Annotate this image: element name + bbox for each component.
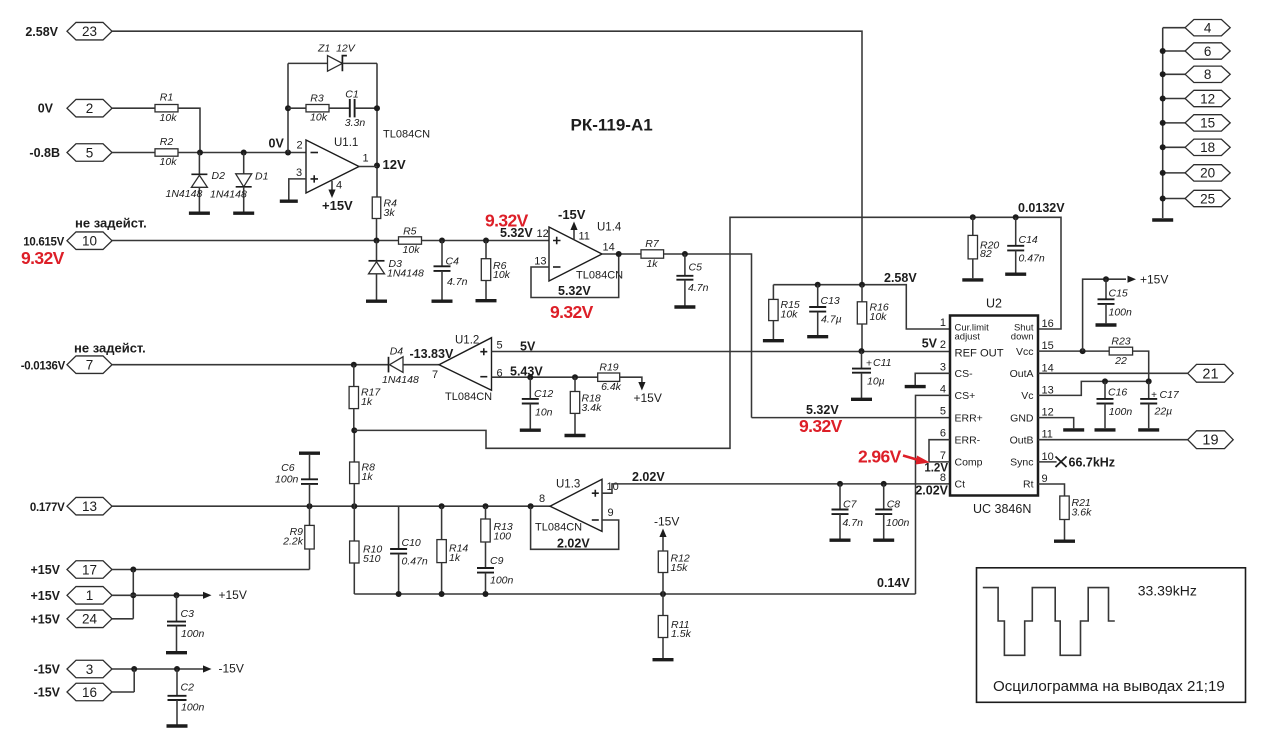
svg-text:+15V: +15V: [30, 563, 60, 577]
wire from pin 23 to R16 node: [112, 31, 862, 285]
svg-text:10n: 10n: [535, 407, 553, 419]
svg-text:R1: R1: [160, 92, 173, 104]
resistor R2: [155, 149, 178, 156]
ground for C12: [520, 429, 541, 432]
zener diode Z1: [288, 62, 328, 64]
svg-text:D2: D2: [212, 170, 226, 182]
svg-text:9: 9: [608, 507, 614, 519]
wire -15V bus vertical: [112, 669, 134, 692]
svg-text:C3: C3: [181, 608, 195, 620]
svg-text:10µ: 10µ: [867, 375, 885, 387]
diode D1: [243, 153, 245, 174]
wire pin2 to R1: [112, 107, 155, 109]
connector pin 19 output: [1188, 431, 1234, 449]
wire pin3 -15V line with arrow: [112, 668, 203, 670]
wire U1.2 pin6 line: [492, 376, 598, 378]
svg-text:1.5k: 1.5k: [671, 628, 692, 640]
connector pin 2 (0V input): [67, 99, 112, 117]
svg-text:1: 1: [86, 588, 94, 603]
U2 pin 15 Vcc wire to R23 and +15V: [1038, 350, 1109, 352]
svg-text:19: 19: [1202, 433, 1218, 449]
svg-text:10: 10: [1042, 451, 1054, 463]
svg-text:23: 23: [82, 24, 97, 39]
svg-text:0.14V: 0.14V: [877, 576, 910, 590]
svg-text:10k: 10k: [310, 112, 328, 124]
connector pin 23 (2.58V input): [67, 22, 112, 40]
svg-text:66.7kHz: 66.7kHz: [1069, 455, 1116, 469]
ground for C13: [807, 335, 828, 338]
svg-text:1N4148: 1N4148: [210, 189, 247, 201]
svg-text:15k: 15k: [671, 562, 689, 574]
svg-text:-15V: -15V: [34, 663, 61, 677]
ground for R18: [565, 434, 586, 437]
connector pin 18: [1163, 146, 1185, 148]
capacitor C10: [398, 506, 400, 549]
svg-text:9.32V: 9.32V: [550, 302, 594, 322]
svg-text:10k: 10k: [493, 269, 511, 281]
svg-text:10k: 10k: [160, 112, 178, 124]
svg-text:3k: 3k: [384, 207, 396, 219]
diode D3: [376, 241, 378, 261]
svg-text:C13: C13: [821, 295, 840, 307]
svg-text:UC 3846N: UC 3846N: [973, 502, 1031, 516]
wire right connector column vertical: [1162, 28, 1164, 218]
svg-text:0V: 0V: [38, 102, 54, 116]
svg-text:1N4148: 1N4148: [382, 374, 419, 386]
resistor R11: [662, 594, 664, 616]
resistor R18: [574, 377, 576, 391]
svg-text:6: 6: [940, 428, 946, 440]
connector pin 25: [1163, 198, 1185, 200]
svg-text:3.3n: 3.3n: [345, 117, 366, 129]
svg-text:8: 8: [539, 493, 545, 505]
svg-text:1: 1: [363, 153, 369, 165]
connector pin 15: [1163, 122, 1185, 124]
resistor R9: [309, 506, 311, 525]
diode D2: [198, 153, 200, 175]
op-amp U1.1: [306, 140, 359, 193]
U2 pin 4 CS+ wire down to 0.14V rail: [916, 395, 951, 594]
U1.1 pin 3 ground: [289, 179, 306, 200]
connector pin 6: [1163, 50, 1185, 52]
ground for R6: [476, 299, 497, 302]
connector pin 20: [1163, 172, 1185, 174]
svg-text:1N4148: 1N4148: [166, 188, 203, 200]
wire U1.4 output to R7: [602, 253, 641, 255]
svg-text:10k: 10k: [160, 156, 178, 168]
svg-text:12V: 12V: [383, 157, 406, 172]
svg-text:1N4148: 1N4148: [387, 268, 424, 280]
svg-text:C1: C1: [345, 88, 358, 100]
capacitor C15: [1105, 279, 1107, 299]
connector pin 21 output: [1188, 364, 1234, 382]
svg-text:21: 21: [1202, 366, 1218, 382]
svg-text:5.32V: 5.32V: [500, 226, 533, 240]
capacitor C6 with top ground: [299, 452, 320, 455]
svg-text:25: 25: [1200, 191, 1215, 206]
capacitor C5: [684, 254, 686, 276]
connector pin 3 (-15V): [67, 660, 112, 678]
svg-text:-15V: -15V: [219, 661, 244, 675]
svg-text:6: 6: [1204, 44, 1212, 59]
capacitor C14: [1015, 217, 1017, 246]
svg-text:4.7n: 4.7n: [688, 282, 709, 294]
ground for C17: [1138, 428, 1159, 431]
capacitor C1: [350, 99, 355, 117]
oscillogram box: [977, 568, 1246, 703]
svg-text:U2: U2: [986, 297, 1002, 311]
svg-text:4: 4: [336, 180, 342, 192]
svg-text:5V: 5V: [922, 337, 938, 351]
capacitor C4: [441, 241, 443, 267]
svg-text:0V: 0V: [269, 136, 285, 150]
svg-text:CS+: CS+: [955, 390, 976, 402]
resistor R6: [485, 241, 487, 259]
svg-text:C5: C5: [689, 261, 703, 273]
U2 pin 10 Sync with X mark: [1038, 461, 1057, 463]
svg-text:C10: C10: [402, 537, 421, 549]
svg-text:Sync: Sync: [1010, 457, 1033, 469]
capacitor C17 (polarized): [1148, 381, 1150, 399]
svg-text:Rt: Rt: [1023, 479, 1034, 491]
svg-text:9.32V: 9.32V: [21, 248, 65, 268]
svg-text:-15V: -15V: [654, 515, 679, 529]
svg-text:7: 7: [86, 358, 94, 373]
U2 pin 11 OutB wire to pin 19: [1038, 439, 1188, 441]
svg-text:C8: C8: [887, 499, 901, 511]
svg-text:10.615V: 10.615V: [23, 237, 64, 249]
resistor R17: [353, 365, 355, 387]
svg-text:100: 100: [494, 531, 512, 543]
ground for R15: [763, 339, 784, 342]
svg-text:+15V: +15V: [30, 612, 60, 626]
svg-text:U1.4: U1.4: [597, 222, 622, 234]
svg-text:REF OUT: REF OUT: [955, 348, 1004, 360]
svg-text:C12: C12: [534, 388, 553, 400]
svg-text:4.7n: 4.7n: [447, 276, 468, 288]
svg-text:2.58V: 2.58V: [884, 271, 917, 285]
svg-text:1.2V: 1.2V: [924, 463, 948, 475]
svg-text:24: 24: [82, 612, 98, 627]
svg-text:TL084CN: TL084CN: [576, 270, 623, 282]
svg-text:22µ: 22µ: [1154, 406, 1173, 418]
svg-text:РК-119-А1: РК-119-А1: [571, 116, 653, 135]
wire pin5 to R2: [112, 152, 155, 154]
ground for C14: [1005, 273, 1026, 276]
svg-text:1k: 1k: [646, 258, 658, 270]
svg-text:8: 8: [1204, 67, 1212, 82]
svg-text:CS-: CS-: [955, 368, 974, 380]
ground for C11: [851, 398, 872, 401]
svg-text:+: +: [866, 357, 872, 369]
svg-text:100n: 100n: [181, 628, 205, 640]
svg-text:10k: 10k: [870, 311, 888, 323]
svg-text:2: 2: [86, 101, 94, 116]
connector pin 7 (-0.0136V): [67, 356, 112, 374]
svg-text:4.7n: 4.7n: [843, 517, 864, 529]
connector pin 13 (0.177V): [67, 497, 112, 515]
svg-text:1k: 1k: [449, 552, 461, 564]
svg-text:2.02V: 2.02V: [632, 470, 665, 484]
svg-text:Vcc: Vcc: [1016, 346, 1034, 358]
ground for right connector column: [1152, 218, 1173, 221]
resistor R23: [1109, 347, 1132, 355]
U2 pin 6 ERR- to Comp wire: [929, 440, 950, 462]
svg-text:OutA: OutA: [1010, 368, 1034, 380]
svg-text:5.32V: 5.32V: [806, 403, 839, 417]
resistor R7: [641, 250, 664, 258]
svg-text:100n: 100n: [275, 473, 299, 485]
resistor R12 with -15V arrow: [662, 573, 664, 595]
resistor R3: [306, 105, 329, 112]
svg-text:0.177V: 0.177V: [30, 502, 65, 514]
svg-text:11: 11: [579, 231, 590, 243]
svg-text:16: 16: [82, 685, 97, 700]
wire R23 to OutA node: [1133, 351, 1149, 381]
svg-text:1k: 1k: [362, 471, 374, 483]
wire 0.0132V net from R17/R8 node to U2 shutdown: [354, 217, 1061, 448]
ground for C5: [674, 305, 695, 308]
wire U1.2 pin5 5V reference line to U2 REF OUT: [492, 351, 951, 353]
svg-text:C4: C4: [446, 255, 460, 267]
wire pin1 +15V line with arrow: [112, 594, 203, 596]
capacitor C13: [817, 285, 819, 307]
svg-text:5: 5: [497, 340, 503, 352]
svg-text:C2: C2: [181, 681, 195, 693]
ground for C3: [166, 651, 187, 654]
svg-text:17: 17: [82, 562, 97, 577]
U1.3 pin 10 wire to 2.02V line: [602, 484, 950, 493]
capacitor C7: [839, 484, 841, 510]
svg-text:7: 7: [432, 369, 438, 381]
resistor R10: [353, 506, 355, 541]
svg-text:14: 14: [603, 242, 615, 254]
resistor R20: [972, 217, 974, 235]
svg-text:16: 16: [1042, 318, 1054, 330]
wire ERR+ line to U2 pin 5: [752, 417, 951, 419]
capacitor C9: [477, 568, 494, 573]
svg-text:C17: C17: [1160, 389, 1180, 401]
svg-text:2: 2: [940, 339, 946, 351]
U2 pin 14 OutA wire to pin 21: [1038, 372, 1188, 374]
svg-text:2.02V: 2.02V: [915, 484, 948, 498]
svg-text:100n: 100n: [181, 702, 205, 714]
svg-text:18: 18: [1200, 140, 1215, 155]
svg-text:100n: 100n: [1109, 406, 1133, 418]
ground for C16: [1095, 428, 1116, 431]
svg-text:-15V: -15V: [558, 207, 586, 222]
svg-text:не задейст.: не задейст.: [74, 341, 146, 356]
svg-text:5.43V: 5.43V: [510, 365, 543, 379]
svg-text:ERR+: ERR+: [955, 412, 983, 424]
svg-text:C7: C7: [843, 499, 858, 511]
U2 pin 3 CS- ground: [915, 373, 950, 385]
svg-text:3: 3: [296, 167, 302, 179]
connector pin 8: [1163, 73, 1185, 75]
resistor R1: [155, 105, 178, 112]
svg-text:9.32V: 9.32V: [799, 416, 843, 436]
connector pin 5 (-0.8V input): [67, 144, 112, 162]
wire R3 branch: [288, 107, 306, 109]
IC U2 UC3846N body: [950, 316, 1038, 496]
svg-text:3: 3: [940, 361, 946, 373]
svg-text:+15V: +15V: [322, 198, 353, 213]
resistor R19: [598, 373, 620, 381]
svg-text:20: 20: [1200, 166, 1215, 181]
ground for C4: [432, 300, 453, 303]
wire R2 to U1.1 inverting input: [178, 152, 306, 154]
svg-text:D4: D4: [390, 346, 404, 358]
resistor R14: [441, 506, 443, 539]
connector pin 4: [1163, 27, 1185, 29]
svg-text:3: 3: [86, 662, 94, 677]
capacitor C12: [529, 377, 531, 399]
svg-text:+15V: +15V: [634, 391, 662, 405]
svg-text:не задейст.: не задейст.: [75, 216, 147, 231]
capacitor C11 (polarized): [859, 348, 865, 354]
svg-text:9: 9: [1042, 473, 1048, 485]
op-amp U1.4: [549, 227, 602, 281]
wire R19 to +15V arrow: [620, 377, 642, 382]
U1.4 feedback wire pin 13: [531, 254, 619, 298]
svg-text:22: 22: [1114, 355, 1127, 367]
wire pin17 to R9 bottom: [112, 569, 310, 571]
svg-text:-0.8B: -0.8B: [29, 146, 60, 160]
svg-text:U1.2: U1.2: [455, 335, 479, 347]
svg-text:2: 2: [297, 140, 303, 152]
svg-text:+15V: +15V: [219, 588, 247, 602]
wire feedback left vertical: [287, 63, 289, 152]
wire pin7 to D4: [112, 364, 389, 366]
capacitor C16: [1104, 381, 1106, 399]
U1.3 feedback wire: [531, 506, 619, 549]
svg-text:0.0132V: 0.0132V: [1018, 201, 1065, 215]
ground for R21: [1054, 540, 1075, 543]
svg-text:6.4k: 6.4k: [601, 381, 622, 393]
wire R5 to U1.4: [422, 240, 550, 242]
svg-text:2.58V: 2.58V: [25, 25, 58, 39]
svg-text:15: 15: [1200, 116, 1215, 131]
wire 2.58V node: [773, 285, 950, 329]
svg-text:13: 13: [1042, 384, 1054, 396]
connector pin 16 (-15V): [67, 683, 112, 701]
svg-text:100n: 100n: [1109, 307, 1133, 319]
svg-text:C11: C11: [873, 357, 891, 369]
svg-text:+: +: [1151, 390, 1157, 401]
svg-text:R2: R2: [160, 136, 174, 148]
svg-text:11: 11: [1042, 429, 1053, 441]
svg-text:12: 12: [537, 228, 549, 240]
capacitor C3: [176, 595, 178, 621]
connector pin 10 (10.615V): [67, 232, 112, 250]
capacitor C8: [883, 484, 885, 510]
U2 pin 12 GND wire: [1038, 418, 1074, 429]
svg-text:13: 13: [534, 256, 546, 268]
svg-text:C16: C16: [1108, 387, 1127, 399]
svg-text:100n: 100n: [490, 575, 514, 587]
svg-text:2.02V: 2.02V: [557, 537, 590, 551]
svg-text:Vc: Vc: [1021, 390, 1033, 402]
wire feedback right vertical: [376, 63, 378, 197]
svg-text:4: 4: [940, 383, 946, 395]
ground for C7: [830, 539, 851, 542]
svg-text:adjust: adjust: [955, 332, 981, 343]
svg-text:-15V: -15V: [34, 686, 61, 700]
ground for R20: [962, 278, 983, 281]
svg-text:7: 7: [940, 450, 946, 462]
svg-text:0.47n: 0.47n: [402, 556, 428, 568]
svg-text:3.6k: 3.6k: [1072, 507, 1093, 519]
svg-text:2.2k: 2.2k: [282, 536, 304, 548]
wire R3 to C1: [329, 107, 350, 109]
svg-text:Z1 12V: Z1 12V: [317, 43, 356, 55]
svg-text:5V: 5V: [520, 340, 536, 354]
svg-text:14: 14: [1042, 362, 1054, 374]
wire 0.177V rail to U1.3: [112, 505, 550, 507]
ground for D1: [233, 211, 254, 214]
svg-text:510: 510: [363, 553, 381, 565]
svg-text:down: down: [1011, 332, 1034, 343]
svg-text:+15V: +15V: [30, 589, 60, 603]
svg-text:15: 15: [1042, 340, 1054, 352]
svg-text:TL084CN: TL084CN: [445, 391, 492, 403]
diode D4: [388, 357, 390, 373]
op-amp U1.3 (mirrored): [550, 479, 602, 531]
capacitor C2: [176, 669, 178, 696]
svg-text:R19: R19: [599, 362, 618, 374]
svg-text:-13.83V: -13.83V: [410, 347, 454, 361]
svg-text:10k: 10k: [403, 244, 421, 256]
svg-text:U1.1: U1.1: [334, 137, 358, 149]
svg-text:33.39kHz: 33.39kHz: [1138, 583, 1197, 599]
U1.1 pin 4 supply arrow: [331, 181, 333, 191]
svg-text:C6: C6: [281, 462, 295, 474]
svg-text:2.96V: 2.96V: [858, 447, 902, 467]
ground for R11: [653, 658, 674, 661]
svg-text:R3: R3: [310, 93, 324, 105]
svg-text:Осцилограмма на выводах 21;19: Осцилограмма на выводах 21;19: [993, 678, 1225, 695]
resistor R15: [772, 285, 774, 300]
svg-text:82: 82: [980, 248, 992, 260]
connector pin 12: [1163, 98, 1185, 100]
svg-text:10: 10: [82, 234, 97, 249]
connector pin 24 (+15V): [67, 610, 112, 628]
svg-text:R5: R5: [403, 226, 417, 238]
svg-text:GND: GND: [1010, 412, 1034, 424]
wire +15V bus vertical: [112, 570, 133, 619]
resistor R16: [861, 285, 863, 302]
svg-text:R23: R23: [1111, 336, 1130, 348]
svg-text:3.4k: 3.4k: [582, 402, 603, 414]
oscillogram waveform: [983, 588, 1115, 656]
U2 pin 13 Vc wire to C16/C17: [1038, 381, 1149, 395]
wire U1.1 output: [359, 166, 377, 168]
op-amp U1.2 (mirrored): [439, 338, 492, 391]
svg-text:5.32V: 5.32V: [558, 284, 591, 298]
svg-text:Comp: Comp: [955, 457, 983, 469]
svg-text:R7: R7: [645, 238, 660, 250]
svg-text:TL084CN: TL084CN: [535, 522, 582, 534]
svg-text:D1: D1: [255, 171, 268, 183]
resistor R13: [485, 506, 487, 519]
ground for C2: [167, 724, 188, 727]
wire R1 to summing node: [178, 108, 200, 152]
svg-text:C9: C9: [490, 555, 504, 567]
svg-text:C14: C14: [1019, 234, 1038, 246]
svg-text:-0.0136V: -0.0136V: [21, 361, 66, 373]
svg-text:5: 5: [940, 406, 946, 418]
svg-text:+15V: +15V: [1140, 273, 1168, 287]
